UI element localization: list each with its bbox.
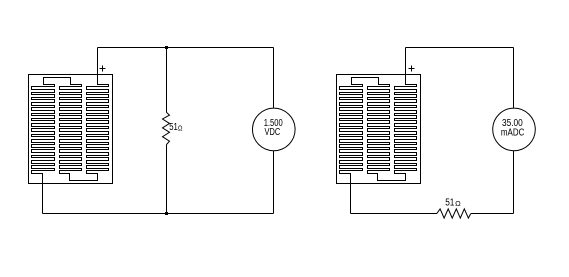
- svg-text:mADC: mADC: [501, 128, 525, 139]
- svg-text:Ω: Ω: [455, 201, 461, 208]
- svg-text:VDC: VDC: [265, 127, 281, 138]
- svg-text:Ω: Ω: [178, 126, 183, 133]
- svg-text:51: 51: [169, 122, 178, 133]
- svg-text:51: 51: [445, 198, 455, 209]
